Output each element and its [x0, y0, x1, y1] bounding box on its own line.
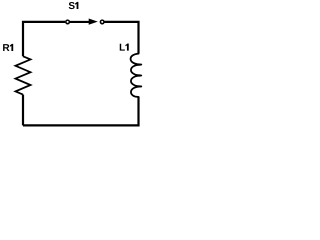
label R1 — [3, 44, 13, 51]
wire bottom-left segment — [22, 95, 24, 126]
wire top-left segment — [23, 22, 65, 56]
switch S1 — [66, 19, 104, 25]
switch arrow — [89, 19, 98, 25]
resistor R1 zigzag — [16, 56, 31, 94]
node terminal circle left — [66, 20, 70, 24]
coil junction curls — [135, 65, 140, 87]
inductor L1 coil — [131, 54, 142, 97]
wire top-right segment — [105, 22, 139, 54]
label L1 — [120, 44, 129, 51]
wire bottom-right segment — [23, 97, 139, 126]
node terminal circle right — [100, 20, 104, 24]
wire switch arm — [70, 21, 90, 23]
label S1 — [69, 2, 79, 9]
